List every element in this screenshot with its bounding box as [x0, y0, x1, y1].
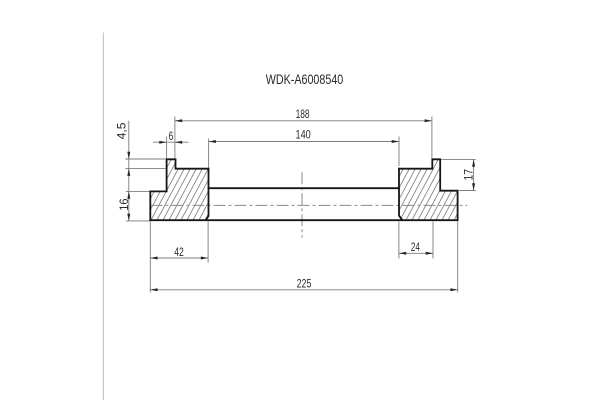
svg-text:6: 6 [169, 129, 174, 143]
svg-text:4,5: 4,5 [114, 122, 128, 139]
svg-text:188: 188 [296, 107, 310, 121]
svg-text:24: 24 [411, 240, 420, 254]
svg-text:225: 225 [297, 277, 312, 291]
svg-text:42: 42 [174, 245, 184, 259]
svg-text:140: 140 [296, 128, 311, 142]
svg-text:WDK-A6008540: WDK-A6008540 [266, 72, 344, 87]
svg-text:17: 17 [461, 169, 475, 181]
svg-text:16: 16 [117, 198, 131, 211]
